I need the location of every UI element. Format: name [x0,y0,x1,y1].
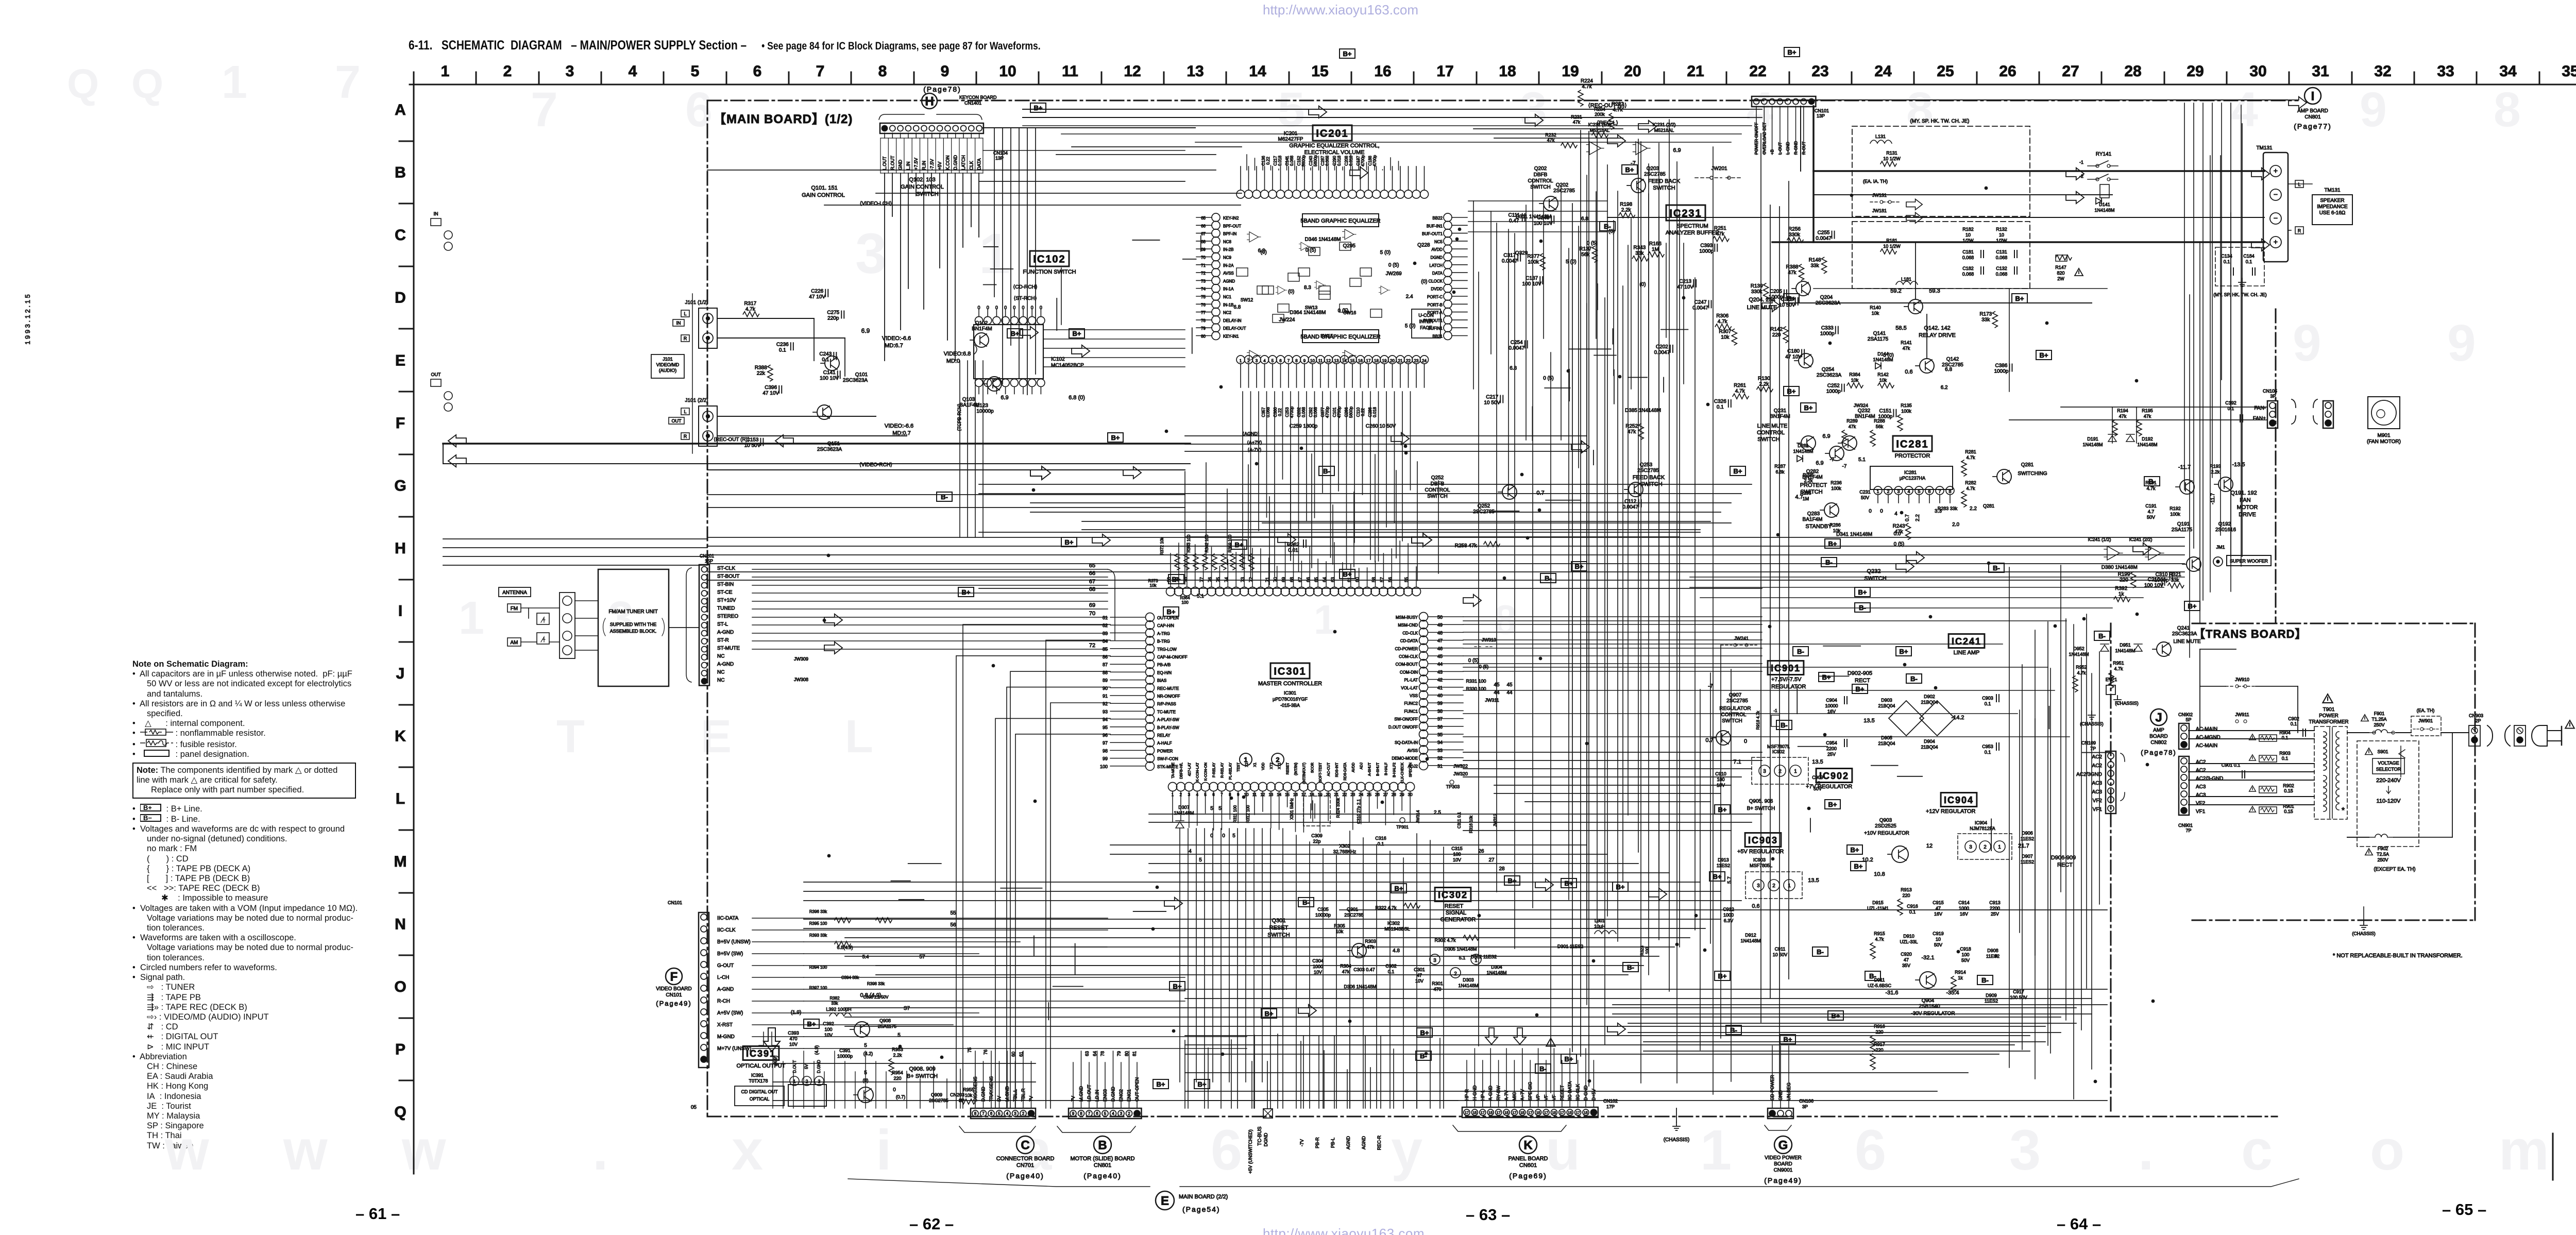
B- label under IC102 [937,492,952,501]
speaker impedance box [2312,195,2352,225]
svg-text:L.OUT: L.OUT [882,156,887,170]
svg-text:C333: C333 [1821,326,1834,331]
svg-text:25V: 25V [1991,911,1999,917]
svg-text:PROTECTOR: PROTECTOR [1895,453,1930,459]
svg-text:FM: FM [511,606,518,612]
svg-text:AGND: AGND [1346,1136,1351,1150]
svg-text:17: 17 [1528,1111,1532,1115]
svg-text:0.7: 0.7 [1705,737,1713,743]
wires relay area [1784,302,2092,303]
svg-text:66: 66 [1201,224,1206,228]
svg-text:D.GND: D.GND [817,1060,821,1073]
svg-text:AMP BOARD: AMP BOARD [2297,108,2328,114]
svg-text:R364: R364 [1180,596,1190,600]
crystal X301 [1303,796,1330,826]
svg-text:IC391: IC391 [746,1048,776,1059]
svg-text:0.15: 0.15 [2284,788,2293,793]
svg-text:0: 0 [987,305,989,310]
svg-text:B+5V (UNSW): B+5V (UNSW) [717,939,751,945]
svg-text:80: 80 [1124,1051,1129,1056]
svg-text:AC2/3GND: AC2/3GND [2076,772,2102,777]
svg-text:M901: M901 [2377,433,2390,438]
svg-text:1N4148M: 1N4148M [2115,648,2135,653]
svg-text:NC: NC [717,654,724,659]
svg-text:1000p: 1000p [1826,389,1841,395]
svg-text:D141: D141 [2099,202,2110,207]
svg-text:47k: 47k [1788,270,1797,276]
svg-text:B+: B+ [1822,673,1831,681]
svg-text:POWER: POWER [1157,749,1173,753]
main board outline dash-dot [707,100,2298,101]
svg-text:AVDD: AVDD [1352,763,1355,772]
svg-text:39: 39 [1437,701,1443,706]
svg-text:LINE MUTE: LINE MUTE [2173,639,2201,645]
svg-text:GENERATOR: GENERATOR [1440,917,1476,923]
svg-text:40: 40 [1437,693,1443,698]
wire bus right column verticals [1586,175,1587,1005]
Q253 feedback switch lower [1629,482,1643,497]
svg-text:R286: R286 [1829,522,1841,528]
keycon vertical label rules [880,138,881,173]
svg-text:0.068: 0.068 [1301,407,1306,417]
svg-text:1k: 1k [1958,975,1963,980]
svg-text:RELAY DRIVE: RELAY DRIVE [1919,332,1956,339]
svg-text:VSS: VSS [1410,693,1418,698]
svg-text:ELECTRICAL VOLUME: ELECTRICAL VOLUME [1304,149,1365,156]
svg-text:35V: 35V [1902,963,1910,968]
svg-text:B-SHUT: B-SHUT [1377,762,1380,776]
page number -64- [2057,1215,2101,1233]
svg-text:5: 5 [1232,833,1235,839]
svg-text:L: L [845,711,873,763]
svg-text:0.6: 0.6 [1905,369,1912,375]
svg-text:(Page77): (Page77) [2294,122,2332,130]
svg-text:⟨ST-RCH⟩: ⟨ST-RCH⟩ [1013,296,1037,301]
svg-text:22p: 22p [1313,839,1320,844]
svg-text:15: 15 [1473,1111,1477,1115]
connector B CN204 9P [1069,1108,1142,1119]
svg-text:B+: B+ [1508,877,1517,885]
svg-text:B+: B+ [1157,1080,1165,1088]
svg-text:20: 20 [1390,359,1395,363]
svg-text:R148: R148 [1809,257,1821,263]
fan motor M901 [2368,397,2400,429]
svg-text:R388: R388 [755,365,767,371]
svg-text:0.47: 0.47 [1509,218,1519,224]
svg-text:ST-BIN: ST-BIN [717,582,734,587]
svg-text:B+: B+ [1787,387,1796,395]
svg-text:Q283: Q283 [1807,511,1820,517]
svg-text:RDS-INT: RDS-INT [1335,762,1339,777]
B+ labels reset area [1391,884,1406,893]
svg-text:1: 1 [1998,844,2001,850]
svg-text:CN101: CN101 [668,900,682,905]
svg-text:0.1: 0.1 [1985,701,1991,706]
svg-text:28: 28 [1499,866,1505,872]
svg-text:C226: C226 [811,289,823,294]
svg-text:B-PLAY-SW: B-PLAY-SW [1157,725,1179,730]
svg-text:SUPPLIED WITH THE: SUPPLIED WITH THE [610,622,656,627]
svg-text:−: − [2274,190,2278,198]
svg-text:1N4148M: 1N4148M [1458,983,1478,988]
svg-text:0 (5): 0 (5) [1468,658,1479,664]
svg-text:R140: R140 [1870,305,1881,310]
svg-text:91: 91 [1103,693,1108,699]
fan wires [2061,407,2267,408]
svg-text:9: 9 [1237,792,1240,797]
svg-text:81: 81 [1132,1051,1137,1056]
svg-text:47k: 47k [1573,120,1581,125]
svg-text:2SA1175: 2SA1175 [1868,336,1889,342]
svg-text:B+: B+ [1167,608,1176,616]
svg-text:C292: C292 [1309,407,1313,417]
svg-text:IC902: IC902 [1772,749,1785,754]
svg-text:Q232: Q232 [1867,568,1881,574]
svg-text:9: 9 [2360,82,2387,137]
svg-text:64: 64 [1322,577,1327,582]
svg-text:OUT: OUT [431,372,442,377]
svg-text:220p: 220p [827,315,839,321]
svg-text:SUPER WOOFER: SUPER WOOFER [2230,559,2268,564]
svg-text:(0): (0) [1288,289,1294,295]
svg-text:5.1: 5.1 [1197,594,1204,599]
svg-text:ST+10V: ST+10V [717,598,736,603]
wire bus top area verticals from keycon region [994,128,995,297]
F901 fuse [2361,715,2368,721]
svg-text:IN-2A: IN-2A [1223,263,1234,268]
svg-text:B+: B+ [1073,330,1081,337]
svg-text:Q232: Q232 [1858,408,1871,414]
u-con interface box [1412,309,1440,338]
svg-text:MOTOR: MOTOR [2237,504,2258,511]
svg-text:12: 12 [1260,792,1265,797]
svg-text:M51943BSL: M51943BSL [1384,926,1410,932]
AM jack [507,638,521,646]
svg-text:C137: C137 [1526,276,1538,281]
svg-text:50V: 50V [1814,786,1822,791]
svg-text:8: 8 [878,63,887,80]
IC201 misc wires to right [1468,200,1607,201]
svg-text:JM1: JM1 [2216,545,2225,550]
svg-text:X301 5MHz: X301 5MHz [1290,798,1294,820]
J amp board label [2150,709,2167,725]
svg-text:10k: 10k [1150,583,1157,588]
svg-text:6.8: 6.8 [1233,304,1241,310]
svg-text:0.1: 0.1 [2282,756,2289,761]
svg-text:DELAY-IN: DELAY-IN [1223,318,1242,323]
svg-text:7: 7 [335,57,361,108]
svg-text:7: 7 [982,1111,985,1116]
svg-text:UZL-33L: UZL-33L [1900,939,1918,944]
IC231 opamps [1586,142,1604,155]
svg-text:13: 13 [1187,63,1204,80]
svg-text:DBFB-H/L: DBFB-H/L [1180,763,1183,779]
svg-text:C202: C202 [1297,407,1301,417]
Q282 protect switch [1829,446,1844,461]
wire bus under IC301 horizontals [1110,844,1587,845]
svg-text:4.7k: 4.7k [2114,666,2123,671]
svg-text:DATA: DATA [977,158,982,170]
svg-text:10: 10 [1815,781,1820,786]
svg-text:T901: T901 [2323,707,2335,713]
CN201 wires right [752,569,1108,570]
antenna matching boxes [537,613,549,624]
svg-text:99: 99 [1103,756,1108,762]
svg-text:6: 6 [753,63,762,80]
svg-text:BOARD: BOARD [2149,734,2168,739]
svg-text:C236: C236 [776,342,789,347]
svg-text:6.8k: 6.8k [1775,469,1785,475]
svg-text:B-: B- [1323,467,1330,475]
svg-text:FEED BACK: FEED BACK [1648,178,1681,184]
svg-text:R198: R198 [1620,202,1632,208]
svg-text:BN1F4M: BN1F4M [1855,414,1875,419]
svg-text:1M: 1M [1803,496,1809,501]
svg-text:FUNCTION SWITCH: FUNCTION SWITCH [1023,269,1076,275]
svg-text:97: 97 [1103,740,1108,746]
svg-text:K: K [395,728,406,745]
svg-text:IC902: IC902 [1819,771,1849,781]
svg-text:ST-MUTE: ST-MUTE [717,646,740,651]
svg-text:74: 74 [1201,287,1206,292]
svg-text:72: 72 [1201,271,1206,276]
svg-text:REGULATOR: REGULATOR [1719,706,1751,712]
svg-text:10V: 10V [789,1042,798,1047]
svg-text:100k: 100k [1831,486,1841,491]
svg-text:R131: R131 [1886,150,1897,156]
svg-text:47: 47 [1417,973,1422,978]
svg-text:2: 2 [1128,1111,1130,1116]
IC201 left pin col 65-80 [1212,213,1220,222]
svg-text:SW13: SW13 [1305,305,1318,310]
svg-text:2: 2 [1772,883,1775,889]
chassis gnd bottom [1676,1108,1677,1122]
svg-text:C191: C191 [2145,503,2157,509]
svg-text:C326: C326 [1714,399,1726,404]
svg-text:0 (5): 0 (5) [1388,263,1399,268]
svg-text:12: 12 [1326,359,1331,363]
svg-text:R388: R388 [1786,264,1799,270]
svg-text:I: I [398,603,402,620]
svg-text:A-PLAY-SW: A-PLAY-SW [1157,718,1179,722]
svg-text:X302: X302 [1339,843,1350,849]
svg-text:RESET: RESET [1445,903,1464,909]
tuner to CN201 wire [669,627,699,628]
svg-text:(AUDIO): (AUDIO) [659,368,677,373]
svg-text:21BQ04: 21BQ04 [1878,703,1895,708]
svg-text:AVDD: AVDD [1431,247,1443,252]
svg-text:x: x [732,1119,763,1182]
svg-text:2: 2 [1276,756,1279,764]
svg-text:AC3: AC3 [2196,792,2206,798]
svg-text:DELAY-OUT: DELAY-OUT [1223,326,1246,331]
waveform circles 1 2 [1240,753,1252,766]
page number -65- [2442,1200,2486,1219]
svg-text:Q252: Q252 [1431,475,1444,481]
svg-text:17: 17 [1481,1111,1485,1115]
svg-text:D906-909: D906-909 [2051,855,2076,861]
amp board boundary arrow to I [1752,99,2287,100]
svg-text:TEST: TEST [1237,762,1241,772]
svg-text:R: R [684,434,687,439]
svg-text:D906: D906 [2022,831,2033,836]
svg-text:L: L [684,409,686,414]
svg-text:32.768KHz: 32.768KHz [1333,849,1357,854]
IC301 left pin col [1146,613,1155,622]
svg-text:5: 5 [1272,359,1274,363]
svg-text:1N4148M: 1N4148M [2137,442,2157,447]
svg-text:K-CON-LAT: K-CON-LAT [1196,762,1200,782]
opamps inside IC201 [1276,286,1287,294]
svg-text:69: 69 [1281,577,1286,582]
svg-text:10V: 10V [1453,857,1461,862]
svg-text:JW324: JW324 [1854,403,1868,408]
svg-text:C911: C911 [1775,946,1786,952]
wire right tall verticals [2230,103,2231,556]
svg-text:4.7k: 4.7k [1718,319,1728,325]
svg-text:90: 90 [1103,686,1108,691]
svg-text:C101: C101 [1332,407,1337,417]
svg-text:AC-MGND: AC-MGND [2196,735,2221,740]
svg-text:0.018: 0.018 [1372,407,1377,417]
svg-text:33k: 33k [1635,251,1644,257]
svg-text:CN902: CN902 [2178,712,2193,717]
wire bus IC201 verticals down [1242,392,1243,568]
svg-text:B-: B- [1817,948,1824,956]
svg-text:4: 4 [1907,489,1910,494]
svg-text:NC: NC [717,670,724,675]
svg-text:LINE MUTE: LINE MUTE [1757,423,1788,429]
svg-text:IC901: IC901 [1771,663,1801,673]
svg-text:SIGNAL: SIGNAL [1446,910,1466,916]
svg-text:FM/AM TUNER UNIT: FM/AM TUNER UNIT [608,609,657,615]
svg-text:0.1: 0.1 [779,347,786,353]
connector circle I amp board [2304,88,2321,104]
svg-text:w: w [164,1119,209,1182]
svg-text:y: y [1391,1119,1422,1182]
svg-text:4: 4 [2231,82,2258,137]
svg-text:1: 1 [1700,1119,1732,1182]
svg-text:LINE AMP: LINE AMP [1954,650,1980,656]
svg-text:2.2: 2.2 [1970,506,1977,512]
svg-text:AMP: AMP [2153,728,2164,733]
svg-text:BA1F4M: BA1F4M [1803,517,1823,522]
svg-text:100: 100 [824,1027,832,1032]
svg-text:3: 3 [1256,359,1258,363]
svg-text:1: 1 [1172,792,1174,797]
svg-text:STANDBY: STANDBY [1805,523,1832,530]
svg-text:1N4148M: 1N4148M [2094,208,2114,213]
svg-text:H: H [395,540,406,557]
svg-text:L.IN: L.IN [906,161,911,170]
svg-text:+: + [2274,166,2278,175]
svg-text:B-: B- [1539,1065,1547,1073]
fan motor connector 2nd [2323,401,2333,428]
svg-text:16: 16 [1374,63,1391,80]
svg-text:-32.1: -32.1 [1921,955,1934,961]
svg-text:R: R [684,336,687,341]
svg-text:C904: C904 [1826,698,1837,703]
svg-text:15: 15 [1584,1111,1588,1115]
svg-text:D902: D902 [1924,694,1935,699]
svg-text:17: 17 [1560,1111,1564,1115]
svg-text:47k: 47k [2119,414,2127,419]
svg-text:SWITCH: SWITCH [1427,494,1447,499]
svg-text:L: L [2298,182,2300,187]
svg-text:IC903: IC903 [1748,835,1778,845]
svg-text:DBFB: DBFB [1534,172,1548,178]
svg-text:CN9001: CN9001 [1774,1168,1793,1173]
svg-text:17: 17 [1576,1111,1580,1115]
svg-text:w: w [283,1119,328,1182]
svg-text:0.018: 0.018 [1278,155,1282,166]
svg-text:A-SHUT: A-SHUT [1368,762,1372,776]
svg-text:IC102: IC102 [1033,254,1065,265]
svg-text:R-RELAY: R-RELAY [1221,763,1224,778]
svg-text:5 (0): 5 (0) [1883,352,1894,358]
IC201 sw matrix [1236,268,1248,276]
svg-text:23: 23 [1811,63,1828,80]
svg-text:BB22: BB22 [1432,216,1443,221]
svg-text:10.8: 10.8 [1874,871,1885,877]
svg-text:66: 66 [1306,577,1311,582]
svg-text:0.22: 0.22 [1278,408,1282,416]
svg-text:-015-3BA: -015-3BA [1280,703,1300,708]
svg-text:0.068: 0.068 [1996,255,2008,260]
svg-text:25V: 25V [1827,752,1836,757]
svg-text:B+: B+ [1900,648,1908,655]
svg-text:C309: C309 [1311,833,1323,838]
svg-text:D912: D912 [1745,933,1756,938]
svg-text:BIAS: BIAS [1157,679,1166,683]
svg-text:COM-BOUT: COM-BOUT [1395,662,1418,667]
svg-text:B+: B+ [1034,104,1043,112]
svg-text:17: 17 [1497,1111,1501,1115]
svg-text:61: 61 [1019,1052,1024,1057]
svg-text:43: 43 [1437,669,1443,674]
svg-text:CN801: CN801 [2304,114,2321,120]
svg-text:BOARD: BOARD [1774,1161,1792,1167]
svg-text:R395 100: R395 100 [809,921,827,926]
svg-text:B+: B+ [1832,1012,1840,1020]
svg-text:1: 1 [1240,359,1242,363]
svg-text:c: c [2241,1119,2273,1182]
svg-text:【MAIN BOARD】(1/2): 【MAIN BOARD】(1/2) [714,112,853,126]
svg-text:7.1: 7.1 [1733,759,1741,765]
svg-text:10k: 10k [1879,378,1887,383]
svg-text:220-240V: 220-240V [2376,777,2401,784]
svg-text:2.0: 2.0 [1952,522,1959,528]
svg-text:21: 21 [1398,359,1403,363]
svg-text:Q295: Q295 [1343,243,1356,249]
svg-text:L-CH: L-CH [717,975,729,980]
svg-text:6.9: 6.9 [1673,147,1681,154]
IC302 reset label [1435,888,1471,902]
svg-text:5.7: 5.7 [1727,876,1733,884]
svg-text:CN903: CN903 [2469,713,2483,718]
svg-text:i: i [876,1119,892,1182]
svg-text:POWER: POWER [2319,713,2338,719]
svg-text:11ES2: 11ES2 [1717,863,1730,868]
svg-text:R232: R232 [1545,132,1556,138]
svg-text:PL-LAT: PL-LAT [1404,678,1418,683]
svg-text:8: 8 [1080,1111,1082,1116]
svg-text:5 (0): 5 (0) [1380,250,1391,256]
wire density boost rows GH center [979,484,1752,485]
svg-text:47 10V: 47 10V [1785,354,1802,360]
svg-text:-14.2: -14.2 [1951,715,1964,721]
svg-text:X1: X1 [1253,763,1257,767]
